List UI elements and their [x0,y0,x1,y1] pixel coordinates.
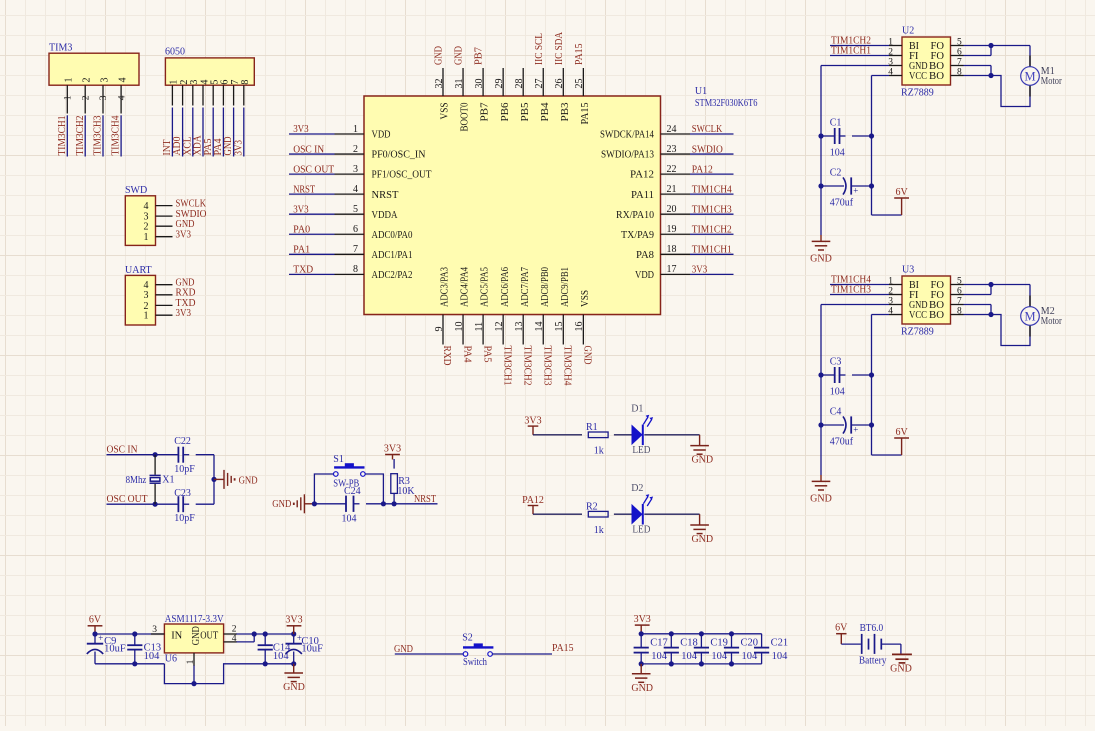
capacitor C21 104 [754,634,788,664]
svg-text:5: 5 [957,276,962,286]
svg-text:VSS: VSS [580,290,591,307]
svg-text:PA12: PA12 [522,495,544,506]
svg-text:VCC: VCC [909,310,927,321]
svg-text:VDD: VDD [372,130,391,141]
svg-text:29: 29 [494,79,505,89]
net label GND [394,644,463,655]
svg-text:GND: GND [239,476,258,487]
svg-text:104: 104 [772,651,789,662]
wire [964,43,1031,107]
net label 3V3 [289,204,335,215]
svg-text:ADC1/PA1: ADC1/PA1 [372,250,413,261]
svg-text:GND: GND [810,494,832,505]
svg-text:4: 4 [232,634,237,644]
svg-text:IN: IN [171,630,182,641]
resistor R3 10K [391,459,416,504]
LED D2 [631,483,653,535]
connector TIM3 [49,43,139,114]
svg-text:NRST: NRST [293,184,315,195]
svg-text:PB6: PB6 [500,103,511,122]
net label TXD [289,265,335,276]
svg-text:BT6.0: BT6.0 [860,623,884,634]
capacitor C1 [821,117,872,158]
svg-text:10uF: 10uF [104,644,126,655]
svg-text:GND: GND [283,682,305,693]
svg-text:BO: BO [929,310,944,321]
svg-text:X1: X1 [162,475,174,486]
net label OSC OUT [289,164,335,175]
wire [639,631,762,666]
svg-text:104: 104 [830,387,845,398]
svg-text:PB7: PB7 [474,47,485,65]
svg-text:RXD: RXD [441,346,452,366]
net label SWDIO [690,144,734,155]
power 6V [88,615,103,634]
net label TIM1CH4 [690,184,734,195]
capacitor C23 10pF [174,488,214,524]
power 6V [894,427,909,455]
IC U2 RZ7889 [888,26,963,99]
svg-text:TIM3: TIM3 [49,43,72,54]
svg-text:7: 7 [957,57,962,67]
switch S2 [462,632,493,668]
svg-text:SWCLK: SWCLK [692,124,723,135]
svg-text:GND: GND [582,346,593,365]
net label PA0 [289,224,335,235]
net label TIM1CH2 [690,224,734,235]
svg-text:RXD: RXD [176,288,196,299]
svg-text:3: 3 [144,290,149,301]
svg-text:GND: GND [631,683,653,694]
svg-text:6: 6 [353,224,358,235]
svg-text:D1: D1 [631,404,643,415]
svg-text:6V: 6V [895,427,908,438]
resistor R2 1k [586,502,608,536]
net label TIM1CH2 [830,36,889,47]
resistor R1 1k [586,422,608,456]
svg-text:STM32F030K6T6: STM32F030K6T6 [695,98,758,109]
connector SWD [125,185,173,245]
svg-text:14: 14 [534,322,545,332]
svg-text:24: 24 [667,124,677,135]
svg-text:10uF: 10uF [301,644,323,655]
svg-text:ADC3/PA3: ADC3/PA3 [440,267,451,307]
svg-text:3V3: 3V3 [233,140,244,156]
svg-text:TIM1CH2: TIM1CH2 [692,224,732,235]
svg-text:S2: S2 [462,632,473,643]
net label PA1 [289,245,335,256]
svg-text:GND: GND [394,644,413,655]
svg-text:11: 11 [474,322,485,332]
capacitor C20 104 [724,634,758,664]
net label TIM1CH3 [830,285,889,296]
svg-text:3: 3 [99,95,109,100]
svg-text:TIM1CH4: TIM1CH4 [692,184,732,195]
ground (west) [272,494,314,513]
svg-text:470uf: 470uf [830,198,854,209]
wire [312,474,438,506]
ground [890,654,912,674]
svg-text:U2: U2 [902,26,914,37]
svg-text:GND: GND [691,455,713,466]
svg-text:ADC5/PA5: ADC5/PA5 [480,267,491,307]
svg-text:2: 2 [353,144,358,155]
svg-text:25: 25 [574,79,585,89]
svg-text:PA12: PA12 [692,164,713,175]
svg-text:23: 23 [667,144,677,155]
svg-text:ADC9/PB1: ADC9/PB1 [560,267,571,307]
svg-text:ADC7/PA7: ADC7/PA7 [520,267,531,307]
svg-text:VSS: VSS [440,102,451,119]
svg-text:IIC SCL: IIC SCL [534,33,545,65]
svg-text:22: 22 [667,164,677,175]
capacitor C2 [821,167,872,208]
svg-text:PA0: PA0 [293,224,310,235]
svg-text:1: 1 [144,311,149,322]
svg-text:1: 1 [186,659,196,664]
svg-text:TIM1CH1: TIM1CH1 [692,245,732,256]
capacitor C9 10uF [87,633,126,664]
svg-text:PF0/OSC_IN: PF0/OSC_IN [372,150,426,161]
svg-text:PA15: PA15 [580,103,591,125]
svg-text:M: M [1024,310,1035,324]
power 3V3 [285,615,302,634]
svg-text:OSC IN: OSC IN [293,144,324,155]
svg-text:6V: 6V [835,623,848,634]
wire [107,452,217,507]
svg-text:C3: C3 [830,356,842,367]
svg-text:PA11: PA11 [631,190,654,201]
svg-text:7: 7 [957,296,962,306]
svg-text:GND: GND [434,46,445,65]
capacitor C14 104 [258,634,292,664]
svg-text:GND: GND [890,664,912,675]
svg-text:1k: 1k [594,525,604,536]
svg-text:U6: U6 [165,654,177,665]
svg-text:104: 104 [144,651,161,662]
svg-text:TIM1CH3: TIM1CH3 [692,204,732,215]
svg-text:C2: C2 [830,167,842,178]
capacitor C24 104 [342,486,361,524]
svg-text:TX/PA9: TX/PA9 [621,230,654,241]
svg-text:ADC0/PA0: ADC0/PA0 [372,230,413,241]
svg-text:16: 16 [574,322,585,332]
svg-text:NRST: NRST [414,494,436,505]
svg-text:PA4: PA4 [461,346,472,363]
svg-text:1: 1 [64,78,75,83]
svg-text:TIM1CH1: TIM1CH1 [831,46,871,57]
svg-text:30: 30 [474,79,485,89]
svg-text:TIM3CH4: TIM3CH4 [111,116,122,156]
svg-text:6V: 6V [89,615,102,626]
svg-text:21: 21 [667,184,677,195]
svg-text:SWDIO: SWDIO [692,144,723,155]
svg-text:OSC OUT: OSC OUT [107,494,148,505]
svg-text:S1: S1 [333,454,344,465]
wire [964,282,1031,346]
svg-text:3: 3 [152,625,157,635]
net label PA12 [690,164,734,175]
svg-text:PA1: PA1 [293,245,310,256]
motor M2 [1021,296,1063,337]
capacitor C10 10uF [286,633,324,664]
svg-text:U3: U3 [902,265,914,276]
svg-text:PA12: PA12 [630,170,654,181]
svg-text:3V3: 3V3 [524,416,541,427]
svg-text:4: 4 [353,184,358,195]
svg-text:9: 9 [434,327,445,332]
svg-text:1: 1 [144,232,149,243]
svg-text:ADC6/PA6: ADC6/PA6 [500,267,511,307]
wire [172,108,243,157]
svg-text:TIM3CH2: TIM3CH2 [75,116,86,156]
svg-text:Motor: Motor [1041,76,1063,87]
ground [690,514,713,545]
svg-text:PB7: PB7 [480,103,491,122]
capacitor C18 104 [664,634,698,664]
svg-text:SWD: SWD [125,185,147,196]
power 3V3 [634,614,651,634]
power 6V [835,623,848,645]
net label OSC IN [107,445,138,456]
wire [67,115,121,156]
svg-text:BOOT0: BOOT0 [460,103,471,132]
svg-text:3V3: 3V3 [285,615,302,626]
svg-text:10pF: 10pF [174,464,195,475]
switch S1 SW-PB [333,454,365,490]
svg-text:C4: C4 [830,406,842,417]
svg-text:5: 5 [957,37,962,47]
connector UART [125,265,173,325]
net label OSC OUT [107,494,148,505]
LED D1 [631,404,653,456]
net label 3V3 [289,124,335,135]
ground [810,475,832,505]
wire [533,434,700,436]
svg-text:15: 15 [554,322,565,332]
svg-text:VCC: VCC [909,71,927,82]
svg-text:SWDCK/PA14: SWDCK/PA14 [600,130,655,141]
capacitor C13 104 [127,634,161,664]
svg-text:TIM3CH1: TIM3CH1 [57,116,68,156]
svg-text:TIM3CH4: TIM3CH4 [562,346,573,386]
svg-text:SWCLK: SWCLK [176,198,207,209]
battery BT6.0 [841,623,901,666]
svg-text:C22: C22 [174,436,191,447]
svg-text:TIM3CH1: TIM3CH1 [501,346,512,386]
svg-text:RX/PA10: RX/PA10 [616,210,654,221]
svg-text:RZ7889: RZ7889 [901,327,934,338]
svg-text:GND: GND [810,254,832,265]
svg-text:U1: U1 [695,86,707,97]
svg-text:5: 5 [353,204,358,215]
svg-text:TXD: TXD [293,265,313,276]
ground [283,664,305,693]
svg-text:R2: R2 [586,502,598,513]
svg-text:OSC OUT: OSC OUT [293,164,334,175]
wire [533,513,700,515]
svg-text:104: 104 [830,148,845,159]
svg-text:LED: LED [632,524,650,535]
svg-text:26: 26 [554,79,565,89]
svg-text:1: 1 [64,95,74,100]
svg-text:ADC4/PA4: ADC4/PA4 [460,266,471,307]
IC U1 STM32F030K6T6 [335,68,758,345]
svg-text:6V: 6V [895,187,908,198]
svg-text:C21: C21 [771,638,789,649]
svg-text:1k: 1k [594,446,604,457]
svg-text:PB3: PB3 [560,103,571,122]
svg-text:8: 8 [957,306,962,316]
svg-text:27: 27 [534,79,545,89]
svg-text:13: 13 [514,322,525,332]
wire [92,631,296,686]
svg-text:3V3: 3V3 [176,230,192,241]
svg-text:GND: GND [176,219,195,230]
svg-text:D2: D2 [631,483,643,494]
svg-text:3V3: 3V3 [293,204,309,215]
svg-text:PB5: PB5 [520,103,531,122]
ground [810,235,832,265]
svg-text:OUT: OUT [200,630,218,641]
svg-text:2: 2 [82,78,93,83]
svg-text:4: 4 [117,95,127,100]
svg-text:1: 1 [353,124,358,135]
power 3V3 [384,443,401,459]
svg-text:TIM3CH2: TIM3CH2 [521,346,532,386]
svg-text:ASM1117-3.3V: ASM1117-3.3V [165,614,225,625]
svg-text:TIM3CH3: TIM3CH3 [93,116,104,156]
svg-text:UART: UART [125,265,152,276]
svg-text:M: M [1024,70,1035,84]
svg-text:470uf: 470uf [830,437,854,448]
svg-text:PA5: PA5 [481,346,492,363]
svg-text:3V3: 3V3 [293,124,309,135]
svg-text:PF1/OSC_OUT: PF1/OSC_OUT [372,170,433,181]
svg-text:ADC8/PB0: ADC8/PB0 [540,267,551,307]
svg-text:IIC SDA: IIC SDA [554,31,565,65]
svg-text:6050: 6050 [165,47,185,58]
svg-text:10: 10 [454,322,465,332]
svg-text:C1: C1 [830,117,842,128]
power tap PA12 [522,495,544,514]
ground (east) [214,470,258,489]
capacitor C17 104 [634,634,668,664]
svg-text:PA15: PA15 [574,44,585,66]
svg-text:Battery: Battery [859,656,887,667]
ground [690,435,713,466]
svg-text:PB4: PB4 [540,102,551,122]
svg-text:ADC2/PA2: ADC2/PA2 [372,270,413,281]
svg-text:SWDIO/PA13: SWDIO/PA13 [601,150,654,161]
svg-text:12: 12 [494,322,505,332]
net label NRST [289,184,335,195]
power tap 3V3 [524,416,541,435]
svg-text:8: 8 [353,264,358,275]
svg-text:VDD: VDD [635,270,654,281]
net label SWCLK [690,124,734,135]
svg-text:3: 3 [353,164,358,175]
crystal X1 8Mhz [126,455,175,505]
power 6V [894,187,909,215]
svg-text:7: 7 [353,244,358,255]
capacitor C22 10pF [174,436,214,475]
svg-text:RZ7889: RZ7889 [901,88,934,99]
svg-text:19: 19 [667,224,677,235]
IC U3 RZ7889 [888,265,963,338]
wire [818,66,901,236]
svg-text:8: 8 [240,80,251,85]
svg-text:PA15: PA15 [552,643,574,654]
svg-text:VDDA: VDDA [372,210,398,221]
svg-text:2: 2 [144,222,149,233]
svg-text:3V3: 3V3 [176,308,192,319]
svg-text:8Mhz: 8Mhz [126,475,147,486]
net label OSC IN [289,144,335,155]
net label TIM1CH3 [690,204,734,215]
svg-text:3V3: 3V3 [692,265,708,276]
wire [492,653,552,655]
svg-text:104: 104 [342,513,357,524]
svg-text:OSC IN: OSC IN [107,445,138,456]
svg-text:3V3: 3V3 [384,443,401,454]
svg-text:PA8: PA8 [636,250,654,261]
svg-text:GND: GND [272,499,291,510]
svg-text:GND: GND [691,534,713,545]
svg-text:6: 6 [957,47,962,57]
svg-text:+: + [853,186,858,196]
svg-text:C23: C23 [174,488,191,499]
svg-text:R1: R1 [586,422,598,433]
net label 3V3 [690,265,734,276]
svg-text:TIM1CH3: TIM1CH3 [831,285,871,296]
svg-text:20: 20 [667,204,677,215]
motor M1 [1021,56,1063,97]
svg-text:6: 6 [957,286,962,296]
capacitor C3 [821,356,872,397]
svg-text:18: 18 [667,244,677,255]
svg-text:3: 3 [99,78,110,83]
svg-text:C24: C24 [344,486,361,497]
svg-text:2: 2 [232,624,237,634]
svg-text:Motor: Motor [1041,316,1063,327]
net label TIM1CH4 [830,275,889,286]
connector 6050 [165,47,254,106]
svg-text:10pF: 10pF [174,513,195,524]
svg-text:BO: BO [929,71,944,82]
svg-text:31: 31 [454,79,465,89]
svg-text:4: 4 [117,78,128,83]
svg-text:4: 4 [144,201,149,212]
svg-text:10K: 10K [397,486,415,497]
net label TIM1CH1 [830,46,889,57]
regulator U6 ASM1117-3.3V [151,614,254,684]
svg-text:8: 8 [957,67,962,77]
svg-text:2: 2 [81,95,91,100]
wire [818,305,901,476]
svg-text:17: 17 [667,264,677,275]
svg-text:32: 32 [434,79,445,89]
svg-text:+: + [98,633,103,643]
svg-text:TIM3CH3: TIM3CH3 [541,346,552,386]
svg-text:28: 28 [514,79,525,89]
svg-text:GND: GND [191,626,202,646]
svg-text:LED: LED [632,445,650,456]
ground [631,664,653,694]
net label TIM1CH1 [690,245,734,256]
svg-text:NRST: NRST [372,190,400,201]
capacitor C4 [821,406,872,447]
